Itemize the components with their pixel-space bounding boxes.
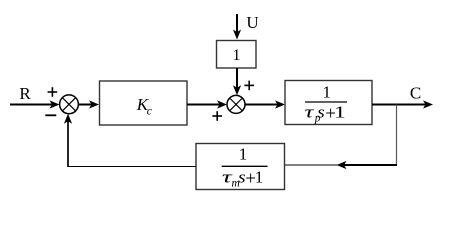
wire feedback up into summer 1 [64, 114, 72, 167]
svg-text:1: 1 [334, 103, 346, 122]
svg-text:τ: τ [305, 103, 315, 122]
svg-text:c: c [147, 106, 152, 118]
svg-text:1: 1 [255, 167, 263, 186]
wire U down into unity block [233, 14, 241, 40]
wire feedback right segment with left arrow [285, 161, 398, 169]
svg-text:s: s [317, 103, 325, 122]
plus sign right of U wire at summer 2 [244, 81, 254, 91]
wire summer 1 to Kc block [79, 100, 100, 108]
block measurement 1/(tau_m s + 1) [196, 144, 285, 190]
wire Kc to summer 2 [187, 100, 227, 108]
wire unity block down into summer 2 [233, 68, 241, 95]
summing junction 2 [227, 95, 245, 113]
block unity gain 1 [217, 41, 257, 69]
node C label [410, 84, 421, 103]
svg-text:1: 1 [239, 145, 248, 164]
node U label [246, 13, 258, 32]
summing junction 1 [60, 95, 79, 114]
block process 1/(tau_p s + 1) [285, 81, 372, 125]
minus sign at summer 1 [45, 114, 56, 116]
wire process block to output C [372, 100, 433, 108]
wire R input arrow into summer 1 [10, 100, 60, 108]
svg-text:U: U [246, 13, 258, 32]
block Kc [100, 81, 188, 125]
svg-text:1: 1 [323, 82, 332, 101]
wire feedback left segment [68, 166, 196, 168]
node R label [19, 84, 31, 103]
svg-text:R: R [19, 84, 31, 103]
plus sign below wire at summer 2 [212, 111, 222, 121]
svg-text:C: C [410, 84, 421, 103]
plus sign at summer 1 [48, 87, 58, 97]
svg-text:1: 1 [233, 47, 241, 64]
wire branch point down from output [396, 105, 398, 166]
wire summer 2 to process block [245, 100, 285, 108]
